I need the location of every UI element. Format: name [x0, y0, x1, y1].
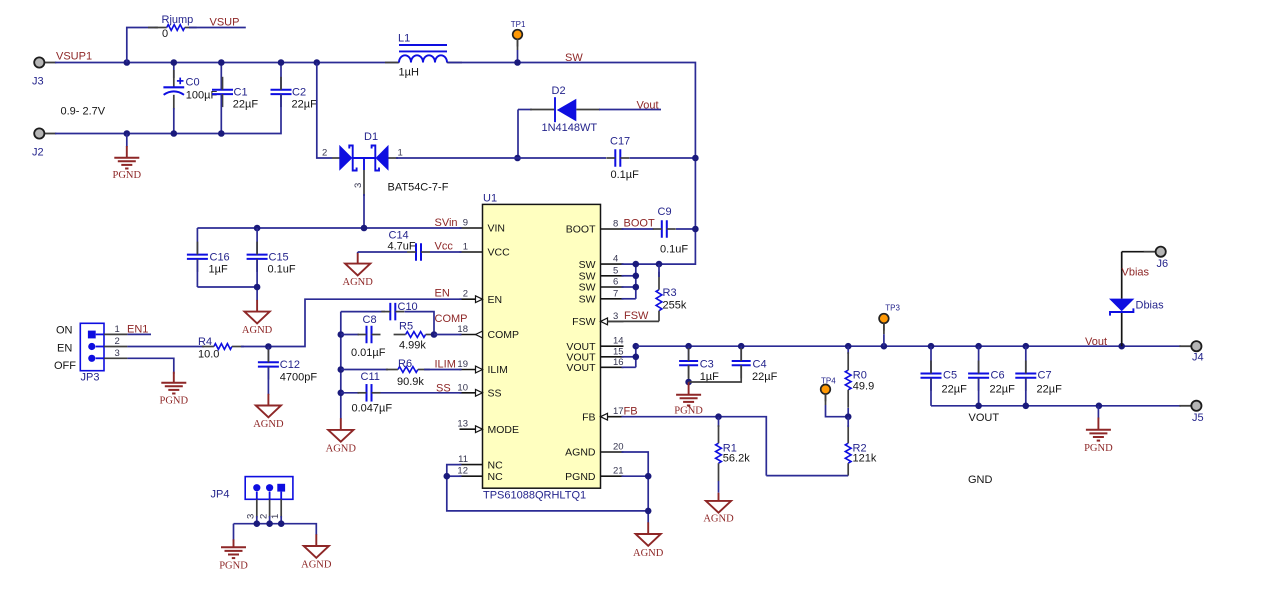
U1 pin 3 FSW	[572, 311, 623, 328]
junction JP4 pin1	[278, 520, 285, 527]
junction R0/R2/TP4	[845, 413, 852, 420]
svg-text:C2: C2	[292, 87, 306, 99]
svg-text:9: 9	[463, 218, 468, 229]
resistor R1	[716, 417, 751, 493]
svg-text:AGND: AGND	[565, 447, 596, 459]
net label SS	[436, 383, 451, 395]
junction gnd/C6	[975, 403, 982, 410]
capacitor C5	[921, 346, 968, 406]
wire R4 to C12/EN	[241, 299, 462, 346]
wire TP1 to SW	[517, 39, 519, 63]
inductor L1	[385, 33, 462, 79]
JP4 pin 1 wire	[270, 492, 281, 524]
junction VSUP1/C0	[171, 59, 178, 66]
junction SVin/C15	[254, 225, 261, 232]
junction EN/C12	[265, 343, 272, 350]
connector J5	[1179, 401, 1203, 424]
text OFF	[54, 360, 76, 372]
U1 pin 7 SW	[579, 288, 624, 305]
junction VOUT/R0	[845, 343, 852, 350]
junction VOUT/C5	[928, 343, 935, 350]
svg-text:1: 1	[270, 514, 281, 519]
svg-text:Vbias: Vbias	[1122, 267, 1150, 279]
svg-text:TP4: TP4	[821, 377, 836, 386]
svg-text:C8: C8	[363, 314, 377, 326]
wire COMP to pin	[434, 334, 462, 336]
svg-text:0.1uF: 0.1uF	[268, 264, 296, 276]
svg-text:22µF: 22µF	[942, 384, 968, 396]
net label EN	[435, 288, 450, 300]
svg-text:D2: D2	[552, 85, 566, 97]
wire AGND pin 20	[622, 452, 649, 523]
junction comp bus/R6	[338, 366, 345, 373]
junction VOUT pin15	[633, 354, 640, 361]
capacitor C11	[341, 371, 462, 414]
JP3 pin 3 wire	[96, 348, 174, 374]
svg-text:AGND: AGND	[703, 514, 734, 525]
diode D1 BAT54C-7-F	[322, 131, 518, 228]
svg-text:Vout: Vout	[637, 100, 659, 112]
svg-text:2: 2	[463, 289, 468, 300]
JP4 pin 2 wire	[258, 492, 269, 524]
svg-text:22µF: 22µF	[292, 99, 318, 111]
svg-text:NC: NC	[488, 459, 504, 471]
svg-text:J2: J2	[32, 147, 44, 159]
connector J3	[32, 57, 56, 87]
text EN	[57, 343, 72, 355]
svg-text:C15: C15	[269, 252, 289, 264]
U1 pin 15 VOUT	[566, 346, 623, 363]
wire SVin rail	[197, 227, 461, 229]
resistor R0	[845, 346, 874, 417]
svg-text:COMP: COMP	[488, 329, 520, 341]
junction VOUT/Dbias	[1118, 343, 1125, 350]
U1 pin 9 VIN	[460, 218, 506, 235]
svg-text:6: 6	[613, 277, 618, 288]
svg-text:J5: J5	[1192, 412, 1204, 424]
svg-text:1: 1	[463, 242, 468, 253]
svg-text:R3: R3	[663, 287, 677, 299]
test point TP3	[879, 303, 900, 346]
svg-text:3: 3	[613, 311, 618, 322]
net label Vbias	[1122, 267, 1150, 279]
svg-text:Vout: Vout	[1085, 336, 1107, 348]
U1 pin 20 AGND	[565, 442, 623, 459]
svg-text:49.9: 49.9	[853, 380, 874, 392]
svg-text:C17: C17	[610, 136, 630, 148]
svg-text:22µF: 22µF	[752, 371, 778, 383]
svg-text:J6: J6	[1157, 258, 1169, 270]
junction JP4 pin3	[253, 520, 260, 527]
svg-text:Rjump: Rjump	[162, 14, 194, 26]
junction NC bus	[444, 473, 451, 480]
net label Vcc	[435, 241, 454, 253]
svg-text:EN: EN	[488, 294, 503, 306]
svg-text:SW: SW	[579, 282, 596, 294]
capacitor C7	[1015, 346, 1062, 406]
ground AGND chip	[633, 522, 664, 559]
svg-text:1µF: 1µF	[700, 371, 719, 383]
resistor R4	[198, 336, 244, 361]
wire JP4 bottom	[234, 524, 317, 541]
U1 pin 12 NC	[457, 466, 503, 483]
svg-text:OFF: OFF	[54, 360, 76, 372]
junction C3/C4 bottom	[685, 379, 692, 386]
text ON	[56, 325, 73, 337]
capacitor C17	[606, 136, 695, 182]
net label Vout (output)	[1085, 336, 1107, 348]
wire to Rjump	[127, 28, 158, 63]
svg-text:ON: ON	[56, 325, 73, 337]
capacitor C16	[187, 228, 230, 287]
svg-text:11: 11	[458, 454, 468, 465]
junction VOUT/C4	[738, 343, 745, 350]
svg-text:4: 4	[613, 254, 618, 265]
svg-text:1µH: 1µH	[399, 67, 419, 79]
svg-text:22µF: 22µF	[1037, 384, 1063, 396]
svg-text:4.7uF: 4.7uF	[388, 241, 416, 253]
svg-text:PGND: PGND	[113, 170, 142, 181]
junction PGND pin/vertical	[645, 473, 652, 480]
svg-text:Dbias: Dbias	[1136, 300, 1165, 312]
JP4 pin 3 wire	[246, 492, 257, 524]
junction gnd/PGND	[124, 130, 131, 137]
svg-text:FSW: FSW	[572, 316, 595, 328]
svg-text:3: 3	[115, 348, 120, 359]
svg-text:AGND: AGND	[253, 419, 284, 430]
junction comp bus/C11	[338, 390, 345, 397]
svg-text:SS: SS	[488, 388, 502, 400]
connector J6	[1144, 247, 1168, 270]
ground PGND output	[1084, 406, 1113, 454]
svg-text:PGND: PGND	[219, 560, 248, 571]
ground PGND C3/C4	[674, 382, 703, 416]
U1 pin 17 FB	[582, 406, 624, 423]
wire VSUP1 top bus	[55, 62, 398, 64]
svg-text:17: 17	[613, 406, 624, 417]
svg-text:R6: R6	[398, 358, 412, 370]
ground AGND JP4	[301, 534, 332, 570]
svg-text:ILIM: ILIM	[435, 359, 456, 371]
capacitor C9	[653, 206, 696, 256]
test point TP4	[821, 377, 849, 417]
junction gnd/C0	[171, 130, 178, 137]
text VOUT	[969, 412, 1000, 424]
JP3 pin 1 wire / net EN1	[96, 324, 151, 336]
svg-text:TP1: TP1	[511, 20, 526, 29]
resistor R5	[394, 321, 438, 352]
net label Vout (bootstrap)	[637, 100, 659, 112]
junction SW bus pin6	[633, 284, 640, 291]
ground PGND input	[113, 134, 142, 182]
connector JP4	[211, 477, 293, 501]
svg-text:PGND: PGND	[160, 395, 189, 406]
wire Vbias to J6	[1122, 251, 1144, 253]
connector J2	[32, 128, 56, 158]
wire VOUT rail	[636, 345, 1181, 347]
svg-text:C9: C9	[658, 206, 672, 218]
wire PGND pin 21	[622, 475, 649, 477]
svg-text:AGND: AGND	[343, 277, 374, 288]
svg-text:JP4: JP4	[211, 489, 230, 501]
svg-text:0: 0	[162, 28, 168, 40]
wire SW pin bus	[622, 264, 660, 299]
svg-text:0.01µF: 0.01µF	[351, 347, 386, 359]
U1 pin 16 VOUT	[566, 357, 623, 374]
svg-text:VOUT: VOUT	[969, 412, 1000, 424]
junction SW/R3	[656, 261, 663, 268]
svg-text:COMP: COMP	[435, 313, 468, 325]
ground AGND C14	[343, 252, 374, 288]
junction SVin/D1 pin3	[361, 225, 368, 232]
svg-text:C7: C7	[1038, 370, 1052, 382]
U1 pin 18 COMP	[457, 324, 519, 341]
wire output ground rail	[931, 405, 1181, 407]
capacitor C10	[341, 301, 434, 335]
U1 pin 6 SW	[579, 277, 624, 294]
resistor R3	[656, 264, 687, 321]
text GND	[968, 474, 993, 486]
svg-text:C10: C10	[398, 301, 418, 313]
svg-text:U1: U1	[483, 193, 497, 205]
svg-text:R4: R4	[198, 336, 212, 348]
svg-text:255k: 255k	[663, 300, 687, 312]
junction VSUP1/C1	[218, 59, 225, 66]
capacitor C8	[341, 314, 386, 359]
svg-text:NC: NC	[488, 471, 504, 483]
svg-text:10.0: 10.0	[198, 349, 219, 361]
junction VOUT/C6	[975, 343, 982, 350]
svg-text:4.99k: 4.99k	[399, 340, 426, 352]
svg-text:C1: C1	[234, 87, 248, 99]
svg-text:1N4148WT: 1N4148WT	[542, 122, 598, 134]
capacitor C1	[212, 63, 258, 134]
svg-text:C0: C0	[186, 77, 200, 89]
svg-text:19: 19	[457, 359, 468, 370]
capacitor C14	[358, 230, 462, 261]
svg-text:PGND: PGND	[674, 406, 703, 417]
svg-text:ILIM: ILIM	[488, 364, 508, 376]
IC U1 TPS61088QRHLTQ1 body	[483, 193, 601, 502]
svg-text:EN: EN	[57, 343, 72, 355]
wire VOUT pins bus	[622, 346, 636, 367]
ground AGND comp bus	[326, 418, 357, 454]
svg-text:EN1: EN1	[127, 324, 148, 336]
svg-text:0.047µF: 0.047µF	[352, 402, 393, 414]
junction VOUT/TP3	[881, 343, 888, 350]
U1 pin 1 VCC	[460, 242, 511, 259]
wire comp bus	[340, 312, 342, 419]
svg-text:AGND: AGND	[242, 325, 273, 336]
net label FB	[624, 406, 638, 418]
svg-text:100µF: 100µF	[186, 89, 218, 101]
svg-text:TP3: TP3	[885, 303, 900, 312]
wire FSW	[608, 320, 660, 322]
svg-text:EN: EN	[435, 288, 450, 300]
capacitor C3	[679, 346, 719, 383]
junction C15 bottom	[254, 284, 261, 291]
capacitor C0 (electrolytic)	[163, 63, 217, 134]
svg-text:12: 12	[457, 466, 468, 477]
U1 pin 21 PGND	[565, 466, 623, 483]
U1 pin 5 SW	[579, 265, 624, 282]
U1 pin 2 EN	[460, 289, 503, 306]
junction VSUP1/Rjump	[124, 59, 131, 66]
junction SW bus pin5	[633, 273, 640, 280]
svg-text:3: 3	[246, 514, 257, 519]
diode Dbias	[1109, 252, 1164, 347]
junction SW bus pin4	[633, 261, 640, 268]
text input voltage range	[61, 106, 106, 118]
svg-text:AGND: AGND	[326, 443, 357, 454]
svg-text:SW: SW	[579, 294, 596, 306]
U1 pin 11 NC	[458, 454, 503, 471]
svg-text:D1: D1	[364, 131, 378, 143]
svg-text:22µF: 22µF	[233, 99, 259, 111]
U1 pin 14 VOUT	[566, 336, 623, 353]
svg-text:VCC: VCC	[488, 247, 511, 259]
svg-text:TPS61088QRHLTQ1: TPS61088QRHLTQ1	[483, 490, 586, 502]
junction VOUT/C3	[685, 343, 692, 350]
net label SVin	[435, 217, 458, 229]
capacitor C15	[247, 228, 296, 287]
svg-text:22µF: 22µF	[990, 384, 1016, 396]
net label VSUP	[189, 17, 246, 29]
ground AGND C12	[253, 394, 284, 430]
svg-text:FB: FB	[624, 406, 638, 418]
svg-text:PGND: PGND	[1084, 443, 1113, 454]
U1 pin 4 SW	[579, 254, 624, 271]
capacitor C4	[689, 346, 778, 383]
svg-text:Vcc: Vcc	[435, 241, 454, 253]
junction VOUT/C7	[1023, 343, 1030, 350]
svg-text:1: 1	[115, 324, 120, 335]
wire BOOT to C9	[622, 228, 654, 230]
text D1 pin 1	[398, 148, 403, 159]
svg-text:14: 14	[613, 336, 624, 347]
svg-text:VSUP1: VSUP1	[56, 51, 92, 63]
resistor R6	[341, 358, 462, 388]
svg-text:SW: SW	[565, 52, 583, 64]
capacitor C12	[258, 347, 317, 396]
svg-text:J3: J3	[32, 76, 44, 88]
svg-text:4700pF: 4700pF	[280, 372, 318, 384]
wire C16/C15 bottom	[197, 287, 257, 301]
svg-text:AGND: AGND	[301, 560, 332, 571]
svg-text:VOUT: VOUT	[566, 362, 596, 374]
junction VSUP1/D1 branch	[314, 59, 321, 66]
svg-text:15: 15	[613, 346, 624, 357]
svg-text:PGND: PGND	[565, 471, 596, 483]
resistor Rjump	[155, 14, 197, 40]
svg-text:0.1µF: 0.1µF	[611, 169, 640, 181]
ground PGND JP4	[219, 539, 248, 571]
svg-text:R5: R5	[399, 321, 413, 333]
junction COMP node	[431, 331, 438, 338]
svg-text:C3: C3	[700, 359, 714, 371]
svg-text:C4: C4	[753, 359, 767, 371]
svg-text:7: 7	[613, 288, 618, 299]
svg-text:C5: C5	[943, 370, 957, 382]
svg-text:21: 21	[613, 466, 624, 477]
resistor R2	[766, 417, 877, 476]
svg-text:8: 8	[613, 219, 618, 230]
connector J4	[1179, 341, 1203, 363]
net label COMP	[435, 313, 468, 325]
svg-text:BOOT: BOOT	[566, 224, 596, 236]
svg-text:121k: 121k	[853, 453, 877, 465]
net label ILIM	[435, 359, 456, 371]
svg-text:GND: GND	[968, 474, 993, 486]
junction JP4 pin2	[266, 520, 273, 527]
ground AGND R1	[703, 493, 734, 525]
capacitor C2	[271, 63, 318, 134]
svg-text:2: 2	[258, 514, 269, 519]
svg-text:20: 20	[613, 442, 624, 453]
svg-text:2: 2	[322, 148, 327, 159]
JP3 pin 2 wire	[96, 336, 204, 347]
svg-text:2: 2	[115, 336, 120, 347]
junction VSUP1/C2	[278, 59, 285, 66]
svg-text:3: 3	[353, 183, 364, 188]
junction BOOT/SW vertical	[692, 226, 699, 233]
junction gnd/C7	[1023, 403, 1030, 410]
junction NC bus/vertical	[645, 508, 652, 515]
svg-text:56.2k: 56.2k	[723, 453, 750, 465]
svg-text:AGND: AGND	[633, 548, 664, 559]
svg-text:0.9- 2.7V: 0.9- 2.7V	[61, 106, 106, 118]
capacitor C6	[968, 346, 1015, 406]
svg-text:18: 18	[457, 324, 468, 335]
svg-text:C12: C12	[280, 359, 300, 371]
svg-text:1: 1	[398, 148, 403, 159]
test point TP1	[511, 20, 526, 47]
wire input ground rail	[55, 133, 281, 135]
svg-text:0.1uF: 0.1uF	[660, 244, 688, 256]
ground PGND JP3	[160, 372, 189, 407]
junction gnd/C1	[218, 130, 225, 137]
svg-text:90.9k: 90.9k	[397, 376, 424, 388]
junction C17/SW vertical	[692, 155, 699, 162]
wire SW net top	[448, 63, 695, 265]
svg-text:VIN: VIN	[488, 223, 506, 235]
svg-text:5: 5	[613, 265, 618, 276]
connector JP3	[80, 323, 104, 383]
wire NC pins	[447, 465, 647, 511]
diode D2 1N4148WT	[518, 85, 661, 158]
U1 pin 8 BOOT	[566, 219, 624, 236]
svg-text:C16: C16	[210, 252, 230, 264]
U1 pin 10 SS	[457, 382, 501, 399]
svg-text:SW: SW	[579, 271, 596, 283]
net label FSW	[624, 310, 649, 322]
svg-text:10: 10	[457, 382, 468, 393]
net label VSUP1	[56, 51, 92, 63]
svg-text:FB: FB	[582, 411, 595, 423]
svg-text:JP3: JP3	[81, 372, 100, 384]
wire VSUP1 to D1 pin2	[317, 63, 332, 159]
junction gnd/PGND out	[1096, 403, 1103, 410]
U1 pin 19 ILIM	[457, 359, 508, 376]
junction SW row/D2	[514, 155, 521, 162]
svg-text:FSW: FSW	[624, 310, 649, 322]
junction comp bus/C8	[338, 331, 345, 338]
svg-text:C11: C11	[361, 371, 380, 383]
svg-text:1µF: 1µF	[209, 264, 228, 276]
svg-text:16: 16	[613, 357, 624, 368]
junction SW/TP1	[514, 59, 521, 66]
svg-text:C6: C6	[991, 370, 1005, 382]
